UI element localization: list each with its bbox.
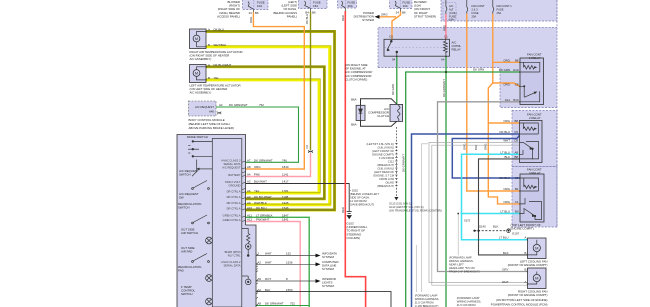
svg-text:DK GRN/WHT: DK GRN/WHT <box>442 79 446 97</box>
svg-text:A/C ASSEMBLY): A/C ASSEMBLY) <box>190 57 212 61</box>
svg-text:1 RELAY: 1 RELAY <box>529 56 541 60</box>
svg-text:A10: A10 <box>247 206 253 210</box>
svg-text:G113 (3.8L (VIN 1)): G113 (3.8L (VIN 1)) <box>389 202 412 206</box>
svg-text:1546: 1546 <box>282 206 289 210</box>
svg-text:(3.8L (VIN K)): (3.8L (VIN K)) <box>378 146 395 150</box>
svg-text:C1: C1 <box>515 200 519 204</box>
svg-text:ORG: ORG <box>381 13 388 17</box>
svg-text:1550: 1550 <box>286 288 293 292</box>
svg-text:2 RELAY: 2 RELAY <box>529 116 541 120</box>
svg-text:B8: B8 <box>514 155 518 159</box>
svg-text:1536: 1536 <box>286 261 293 265</box>
svg-text:DK GRN/WHT: DK GRN/WHT <box>229 103 248 107</box>
svg-text:RED: RED <box>341 15 345 21</box>
svg-text:A4: A4 <box>441 58 445 62</box>
svg-text:1945: 1945 <box>282 201 289 205</box>
svg-text:(BEHIND LOWER LEFT: (BEHIND LOWER LEFT <box>350 192 379 196</box>
svg-text:DR CTRL A: DR CTRL A <box>227 189 241 193</box>
svg-text:A8: A8 <box>247 165 251 169</box>
svg-text:FUSE: FUSE <box>497 8 504 12</box>
svg-text:AIR SWITCH: AIR SWITCH <box>181 231 198 235</box>
svg-text:G11: G11 <box>505 98 511 102</box>
svg-text:G113 (LEFT/FT 3.8L (VIN 1)): G113 (LEFT/FT 3.8L (VIN 1)) <box>389 205 424 209</box>
svg-text:BLWR (MTR): BLWR (MTR) <box>225 250 241 254</box>
svg-text:ORG: ORG <box>503 83 510 87</box>
svg-text:A8: A8 <box>258 302 262 306</box>
svg-text:HVAC CLASS 2: HVAC CLASS 2 <box>221 260 241 264</box>
svg-text:M: M <box>195 37 198 41</box>
svg-text:LT BLU: LT BLU <box>500 210 510 214</box>
svg-text:A8: A8 <box>514 150 518 154</box>
svg-text:GRY: GRY <box>502 268 508 272</box>
svg-text:746: 746 <box>282 159 287 163</box>
svg-text:(LEFT/FT 3.8L (VIN 1)): (LEFT/FT 3.8L (VIN 1)) <box>367 142 395 146</box>
svg-text:BLK: BLK <box>493 225 499 229</box>
svg-text:C8: C8 <box>514 138 518 142</box>
svg-text:RED: RED <box>443 25 447 31</box>
svg-text:B10: B10 <box>513 98 519 102</box>
svg-text:ACCESS PANEL): ACCESS PANEL) <box>217 14 240 18</box>
svg-text:B0: B0 <box>515 210 519 214</box>
svg-text:POWERTRAIN CONTROL MODULE (PCM: POWERTRAIN CONTROL MODULE (PCM) <box>491 302 548 306</box>
svg-text:B8: B8 <box>514 119 518 123</box>
svg-text:C9: C9 <box>389 35 393 39</box>
svg-text:B1: B1 <box>515 187 519 191</box>
svg-text:1840: 1840 <box>282 165 289 169</box>
svg-text:21.5 CM FROM: 21.5 CM FROM <box>457 303 477 307</box>
svg-text:10A: 10A <box>449 18 454 22</box>
svg-text:2 & 3: 2 & 3 <box>472 8 479 12</box>
svg-text:M: M <box>195 72 198 76</box>
svg-text:C5: C5 <box>515 176 519 180</box>
svg-text:ABOVE PARKING BRAKE LEVER): ABOVE PARKING BRAKE LEVER) <box>189 126 234 130</box>
svg-text:COLUMN): COLUMN) <box>347 236 361 240</box>
svg-text:B6: B6 <box>312 11 316 15</box>
svg-text:BLK: BLK <box>265 288 271 292</box>
svg-text:SWITCH: SWITCH <box>179 173 190 177</box>
svg-text:DK BLU/WHT: DK BLU/WHT <box>214 63 232 67</box>
svg-text:B8: B8 <box>515 58 519 62</box>
svg-text:GROUND: GROUND <box>229 183 241 187</box>
svg-text:(FRONT OF ENGINE COMPT): (FRONT OF ENGINE COMPT) <box>508 263 548 267</box>
svg-text:(FORWARD LAMP: (FORWARD LAMP <box>449 256 472 260</box>
svg-text:(3.8L (VIN K)): (3.8L (VIN K)) <box>378 167 395 171</box>
svg-text:A/C ASSEMBLY): A/C ASSEMBLY) <box>190 91 212 95</box>
svg-text:25A: 25A <box>497 11 502 15</box>
svg-text:SYSTEM: SYSTEM <box>322 267 334 271</box>
svg-text:A12: A12 <box>247 218 253 222</box>
svg-text:1841: 1841 <box>282 218 289 222</box>
svg-text:C5: C5 <box>514 130 518 134</box>
svg-text:FUSE: FUSE <box>472 11 479 15</box>
svg-text:21.5 CM FROM: 21.5 CM FROM <box>415 301 435 305</box>
svg-text:1141: 1141 <box>282 173 289 177</box>
svg-text:C112: C112 <box>388 160 395 164</box>
svg-text:15A: 15A <box>313 4 318 8</box>
svg-text:DR CTRL A: DR CTRL A <box>227 206 241 210</box>
svg-text:DR CTRL A: DR CTRL A <box>227 195 241 199</box>
svg-text:WHT: WHT <box>503 138 510 142</box>
svg-text:FROM G-9* BREAKOUT): FROM G-9* BREAKOUT) <box>449 270 480 274</box>
svg-text:25A: 25A <box>472 14 477 18</box>
svg-text:A4: A4 <box>247 173 251 177</box>
svg-text:S175: S175 <box>464 219 471 223</box>
svg-text:(ON TRANSAXLE STUD, REAR (CENT: (ON TRANSAXLE STUD, REAR (CENTER)) <box>389 209 442 213</box>
svg-text:A2: A2 <box>247 180 251 184</box>
svg-text:94: 94 <box>392 58 396 62</box>
svg-text:DK GRN/WHT: DK GRN/WHT <box>265 302 284 306</box>
svg-text:(FORWARD LAMP: (FORWARD LAMP <box>415 294 438 298</box>
svg-text:A2: A2 <box>258 288 262 292</box>
svg-text:CLUTCH: CLUTCH <box>377 114 389 118</box>
svg-text:BLK: BLK <box>474 145 478 150</box>
svg-text:RED: RED <box>341 207 345 213</box>
svg-text:FAN CONT 1: FAN CONT 1 <box>497 4 513 8</box>
svg-text:PANEL): PANEL) <box>287 14 297 18</box>
svg-text:A: A <box>525 236 527 240</box>
svg-text:SYSTEM: SYSTEM <box>322 284 334 288</box>
svg-text:DK GRN/WHT: DK GRN/WHT <box>401 154 405 172</box>
svg-text:ENGINE, 5.7 CM: ENGINE, 5.7 CM <box>374 174 395 178</box>
svg-text:WIRING HARNESS,: WIRING HARNESS, <box>457 300 482 304</box>
svg-text:DK GRN/WHT: DK GRN/WHT <box>254 159 273 163</box>
svg-text:B6A: B6A <box>351 98 357 102</box>
svg-text:G107: G107 <box>512 232 519 236</box>
svg-text:10A: 10A <box>257 4 262 8</box>
svg-text:BLK: BLK <box>503 251 509 255</box>
svg-text:PNK: PNK <box>254 173 260 177</box>
svg-text:WHT/BLK: WHT/BLK <box>214 43 227 47</box>
svg-text:A40: A40 <box>209 110 214 114</box>
svg-text:YEL: YEL <box>254 189 260 193</box>
svg-text:A/C REQUEST: A/C REQUEST <box>222 165 241 169</box>
svg-text:LT BLU: LT BLU <box>500 150 510 154</box>
svg-text:B6: B6 <box>255 11 259 15</box>
svg-text:M: M <box>535 276 538 281</box>
svg-text:A/C: A/C <box>449 4 453 8</box>
svg-text:HVAC CLASS 2: HVAC CLASS 2 <box>221 159 241 163</box>
svg-text:(BREAKOUT): (BREAKOUT) <box>377 184 394 188</box>
svg-text:14 CM FROM: 14 CM FROM <box>350 199 367 203</box>
svg-text:S140: S140 <box>479 225 486 229</box>
svg-text:ORG: ORG <box>503 119 510 123</box>
svg-text:DR CTRL A: DR CTRL A <box>227 201 241 205</box>
svg-text:SWITCH: SWITCH <box>181 292 192 296</box>
svg-text:ORG: ORG <box>254 165 261 169</box>
svg-text:C2: C2 <box>305 144 309 148</box>
svg-text:MODE SWITCH: MODE SWITCH <box>187 135 208 139</box>
svg-text:WHT: WHT <box>265 252 272 256</box>
svg-text:ORG: ORG <box>484 144 488 150</box>
svg-text:24: 24 <box>396 11 400 15</box>
svg-text:WHT: WHT <box>265 261 272 265</box>
svg-text:B6A: B6A <box>351 123 357 127</box>
svg-text:ENGINE COMPT): ENGINE COMPT) <box>372 153 394 157</box>
svg-text:ORG: ORG <box>503 200 510 204</box>
svg-text:YEL: YEL <box>214 76 220 80</box>
svg-text:152: 152 <box>286 252 291 256</box>
svg-text:DOT: DOT <box>265 277 271 281</box>
svg-text:ORG: ORG <box>503 187 510 191</box>
svg-text:(FORWARD LAMP: (FORWARD LAMP <box>457 296 480 300</box>
svg-text:SW: SW <box>179 196 184 200</box>
svg-text:DK BLU: DK BLU <box>305 14 309 24</box>
svg-text:GREN CTRL A: GREN CTRL A <box>223 218 241 222</box>
svg-text:AIR PAD: AIR PAD <box>181 250 192 254</box>
svg-text:A4: A4 <box>219 103 223 107</box>
svg-text:NEAR LEFT: NEAR LEFT <box>449 263 464 267</box>
svg-text:ORG: ORG <box>249 17 253 23</box>
svg-text:ORG: ORG <box>463 144 467 150</box>
svg-text:(COIL): (COIL) <box>449 11 457 15</box>
svg-text:BATTERY: BATTERY <box>228 173 240 177</box>
svg-text:4 CM FROM: 4 CM FROM <box>379 156 395 160</box>
svg-text:DK BLU: DK BLU <box>500 176 510 180</box>
svg-text:1198: 1198 <box>282 195 289 199</box>
svg-text:WHT: WHT <box>502 280 509 284</box>
svg-text:ENGINE COMPT): ENGINE COMPT) <box>511 227 534 231</box>
svg-text:752: 752 <box>259 103 264 107</box>
svg-text:B: B <box>525 251 527 255</box>
svg-text:ORG: ORG <box>503 58 510 62</box>
svg-text:(BREAKOUT): (BREAKOUT) <box>377 163 394 167</box>
svg-text:A7: A7 <box>247 159 251 163</box>
svg-text:C1: C1 <box>444 35 448 39</box>
svg-text:A6: A6 <box>247 189 251 193</box>
svg-text:A3: A3 <box>247 195 251 199</box>
svg-text:PAD: PAD <box>178 269 184 273</box>
svg-text:PNK/WHT: PNK/WHT <box>256 218 270 222</box>
svg-text:(FRONT OF ENGINE COMPT): (FRONT OF ENGINE COMPT) <box>508 293 548 297</box>
svg-text:LT BLU: LT BLU <box>499 236 509 240</box>
svg-text:KDR 2 VOLT: KDR 2 VOLT <box>225 180 241 184</box>
svg-text:WIRING HARNESS,: WIRING HARNESS, <box>415 297 440 301</box>
svg-text:CLUTCH DRIVE): CLUTCH DRIVE) <box>345 77 367 81</box>
svg-text:WIRING HARNESS,: WIRING HARNESS, <box>449 259 474 263</box>
svg-text:B6: B6 <box>402 11 406 15</box>
svg-text:A: A <box>208 28 210 32</box>
svg-text:• S252: • S252 <box>350 189 358 193</box>
svg-text:FAN CONT: FAN CONT <box>472 4 486 8</box>
svg-text:3 RELAY: 3 RELAY <box>529 171 541 175</box>
svg-text:1781: 1781 <box>282 189 289 193</box>
svg-text:A2: A2 <box>258 261 262 265</box>
svg-text:C8: C8 <box>515 83 519 87</box>
svg-text:B: B <box>525 268 527 272</box>
svg-text:DK BLU: DK BLU <box>256 206 266 210</box>
svg-text:E10: E10 <box>513 68 519 72</box>
svg-text:M: M <box>535 246 538 251</box>
svg-text:1417: 1417 <box>282 180 289 184</box>
svg-text:HEADLAMP, *8.5 CM: HEADLAMP, *8.5 CM <box>449 266 475 270</box>
svg-text:STRUT TOWER): STRUT TOWER) <box>414 14 436 18</box>
svg-text:B: B <box>208 76 210 80</box>
svg-text:(LEFT FRONT OF: (LEFT FRONT OF <box>372 149 394 153</box>
svg-text:A9: A9 <box>247 201 251 205</box>
svg-text:WHT/BLK: WHT/BLK <box>254 201 267 205</box>
svg-text:DK GRN: DK GRN <box>391 84 395 95</box>
svg-text:30A: 30A <box>348 4 353 8</box>
svg-text:S/AVE BREAKOUT): S/AVE BREAKOUT) <box>350 203 374 207</box>
svg-text:ALT: ALT <box>449 8 454 12</box>
svg-text:SYSTEM: SYSTEM <box>322 255 334 259</box>
svg-text:SERIAL DATA: SERIAL DATA <box>224 263 241 267</box>
svg-text:SIDE OF DASH,: SIDE OF DASH, <box>350 196 370 200</box>
svg-text:A5: A5 <box>258 277 262 281</box>
svg-text:DK BLU/WHT: DK BLU/WHT <box>254 195 272 199</box>
svg-text:RELAY: RELAY <box>452 48 461 52</box>
svg-text:OIL/KE: OIL/KE <box>385 181 394 185</box>
svg-text:RLY CTRL: RLY CTRL <box>228 254 241 258</box>
svg-text:(LEFT REAR OF: (LEFT REAR OF <box>374 170 394 174</box>
svg-text:B: B <box>208 43 210 47</box>
svg-text:DK BLU: DK BLU <box>500 130 510 134</box>
svg-text:SWITCH: SWITCH <box>178 206 189 210</box>
svg-text:10A: 10A <box>403 4 408 8</box>
svg-text:BLK: BLK <box>505 155 511 159</box>
svg-text:A/C REQUEST: A/C REQUEST <box>195 105 214 109</box>
svg-text:DK GRN: DK GRN <box>473 68 484 72</box>
svg-text:GREN CTRL A: GREN CTRL A <box>223 214 241 218</box>
svg-text:752: 752 <box>290 302 295 306</box>
svg-text:DK BLU: DK BLU <box>214 28 224 32</box>
svg-text:A: A <box>525 280 527 284</box>
svg-text:24: 24 <box>249 11 253 15</box>
svg-text:FROM LOW: FROM LOW <box>379 177 394 181</box>
svg-text:A: A <box>208 63 210 67</box>
svg-text:BLK/WHT: BLK/WHT <box>254 180 267 184</box>
svg-text:DK GRN: DK GRN <box>499 68 510 72</box>
svg-text:SYSTEM: SYSTEM <box>362 18 374 22</box>
